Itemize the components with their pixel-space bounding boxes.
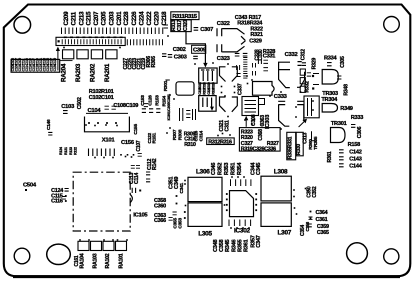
pad bars below C113 [132,188,135,193]
svg-text:RA102: RA102 [105,253,111,268]
wire from R313 box to C309 [186,32,205,63]
svg-text:C323: C323 [217,56,231,62]
svg-text:C337: C337 [238,83,244,95]
svg-text:C215: C215 [86,11,93,26]
arrowhead at relay [244,116,248,120]
svg-text:RA101: RA101 [118,253,124,268]
svg-text:C316: C316 [193,130,199,141]
capacitor C358 pad dot [176,195,178,197]
svg-text:C349: C349 [174,177,180,190]
svg-text:TR303: TR303 [322,91,338,97]
svg-text:C368: C368 [258,129,264,141]
IC306 body [176,82,194,95]
svg-text:R326: R326 [212,87,216,94]
connector CN301 outline [199,68,217,83]
svg-text:C130: C130 [53,64,57,72]
svg-text:C322: C322 [207,87,211,94]
svg-text:R361: R361 [327,151,333,162]
svg-text:C116: C116 [51,198,63,204]
transistor Q301 body [222,29,245,41]
connector CN301 top dashes [201,69,214,71]
connector pin bars continuation [127,39,162,45]
component box R313 C317 C320 [171,20,191,32]
capacitor C113 symbol [146,172,150,175]
relay footprint inner bars [245,101,257,113]
svg-text:C303: C303 [174,55,188,61]
pad dot b [312,87,314,89]
arrowhead to connector pin 1 [56,47,60,51]
svg-text:R124: R124 [59,147,63,155]
mounting hole bottom-left small [14,248,30,264]
capacitor C309 symbol [193,56,198,58]
svg-text:R346: R346 [231,239,237,252]
svg-text:C306: C306 [357,126,363,138]
arrowhead diagonal [302,119,307,123]
capacitor C354 symbol [308,224,312,227]
capacitor C104 symbol b [112,106,116,109]
capacitor C302 symbol [162,54,166,57]
svg-text:C156: C156 [121,140,135,146]
svg-text:C353: C353 [178,218,184,229]
svg-text:C114: C114 [134,173,140,184]
IC304 body [304,96,319,118]
svg-text:R142: R142 [152,158,158,170]
node line under C104 [86,112,128,114]
svg-text:C347: C347 [256,235,262,248]
svg-text:C108C109: C108C109 [113,103,138,109]
connector CN302 arrow [210,107,214,111]
IC304 inner bars [308,98,312,116]
IC302 body (octagon) [230,191,254,217]
svg-text:L308: L308 [274,168,288,175]
svg-text:C201: C201 [116,11,123,26]
crystal X101 body (bracket) [85,117,130,132]
svg-text:R121: R121 [64,147,68,155]
resistor group box R311 R315 [171,12,199,20]
svg-text:C314: C314 [199,130,205,141]
transistor TR304 body [322,104,337,113]
svg-text:IC105: IC105 [133,212,148,218]
component box R330 C313 [296,132,303,156]
svg-text:RA103: RA103 [93,253,99,268]
transistor Q302 body [222,41,245,52]
capacitor C363 symbol [173,212,177,215]
svg-text:C144: C144 [349,164,363,170]
pad dot near L305 a [184,211,186,213]
capacitor symbol right of C328 a [263,60,268,63]
transistor Q306 body [232,97,238,112]
svg-text:L305: L305 [198,230,212,237]
capacitor C107 symbol [138,153,142,156]
capacitor pad ticks row (C209-C218) [62,28,163,35]
bracket near R333 [312,131,318,141]
mounting hole bottom-left oval [47,244,71,264]
svg-text:R153: R153 [155,95,161,106]
svg-text:L307: L307 [278,230,292,237]
svg-text:C155: C155 [133,124,139,135]
capacitor symbol above C113 [131,165,135,168]
resistor R334 symbol [327,63,332,66]
svg-text:C224: C224 [138,11,145,26]
svg-text:C102C101: C102C101 [89,95,114,101]
pin labels between connectors row 2 [198,87,216,94]
svg-text:R351: R351 [231,163,237,176]
svg-text:R335R331: R335R331 [288,136,294,159]
svg-text:C220: C220 [154,11,161,26]
resistor array RA201 body [106,50,117,59]
relay footprint step [259,99,265,105]
svg-text:R305: R305 [151,56,157,68]
mounting hole top-right [384,17,400,33]
capacitor C364 symbol dots [310,211,312,213]
pad bars left of C333 b [253,71,256,76]
svg-text:R312R316: R312R316 [208,139,232,145]
leader line from label block to connector [57,50,59,71]
svg-text:C364: C364 [316,210,328,216]
capacitor C116 symbol dot [65,200,67,202]
resistor array RA202 body [91,50,102,59]
svg-text:C228: C228 [123,11,130,26]
svg-text:C331: C331 [263,54,276,60]
capacitor C306 symbol [351,125,355,128]
capacitor C361 symbol [309,217,313,219]
arrowhead into connector CN301 [203,63,207,68]
connector X201 pin 1 dot [58,40,60,42]
capacitor symbols left of IC105 [62,197,66,200]
assorted pad dots [63,35,314,241]
svg-text:RA203: RA203 [75,63,82,82]
svg-text:C213: C213 [78,11,85,26]
svg-text:C315: C315 [198,87,202,94]
capacitor C504 dot [25,189,27,191]
transistor TR301 body [331,128,346,143]
connector label block row 1 (C105-C129) [11,58,57,66]
svg-text:C332: C332 [285,52,298,58]
svg-text:C305: C305 [340,56,346,68]
transistor Q305 body [220,97,226,112]
svg-text:R122: R122 [74,147,78,155]
transistor Q308 body [297,62,305,88]
svg-text:C153: C153 [140,95,146,106]
pad ticks above IC105 [89,149,115,157]
pin labels between connectors row 1 [198,82,216,89]
svg-text:C203: C203 [108,11,115,26]
svg-text:TR305: TR305 [313,136,319,150]
svg-text:C309: C309 [193,48,207,54]
capacitor C303 symbol [168,55,172,58]
mounting hole bottom-right small [384,249,399,264]
svg-text:C209: C209 [63,11,70,26]
svg-text:C346: C346 [211,163,217,176]
capacitor C142 symbol [339,150,344,153]
transistor Q307 body [279,62,290,87]
svg-text:R348: R348 [344,84,350,96]
label block top leader [60,60,73,62]
svg-text:C143: C143 [349,157,362,163]
transistor TR303 body [322,70,338,85]
svg-text:R352: R352 [218,163,224,176]
capacitor symbol x237 [236,74,240,77]
board bottom edge (thick) [13,275,400,278]
svg-text:R354: R354 [237,162,243,176]
capacitor C324 symbol [243,53,248,56]
svg-text:C107: C107 [136,140,142,151]
transistor Q301 pins [217,28,222,36]
pad bars pair x237 [237,65,240,70]
capacitor C143 symbol [339,157,344,160]
svg-text:C361: C361 [316,217,328,223]
svg-text:RA201: RA201 [104,63,111,82]
resistor R301 tick [165,79,169,81]
svg-text:C307: C307 [200,27,213,33]
svg-text:C504: C504 [23,182,37,188]
svg-text:C320: C320 [183,20,189,31]
svg-text:RA202: RA202 [90,63,97,82]
capacitor symbol right of C328 b [263,68,268,71]
svg-text:R333: R333 [351,115,364,121]
capacitor C323 symbol [235,53,240,56]
resistor array RA103 body [91,241,102,250]
transistor Q310 body [297,101,304,121]
connector X201 pin bars [62,39,121,44]
crystal X302 bars [180,108,196,121]
svg-text:C222: C222 [146,11,153,26]
component box R335 R331 [287,132,296,160]
svg-text:C365: C365 [317,230,329,236]
svg-text:C329: C329 [249,39,262,45]
capacitor symbol right of Q308 [307,73,311,76]
svg-text:R361: R361 [244,239,250,252]
svg-text:R349: R349 [340,106,353,112]
pad dot below C114 [139,190,141,192]
IC302 bottom pads [229,220,251,227]
capacitor C307 symbol [194,28,199,31]
svg-text:R310: R310 [184,142,196,148]
svg-text:C366: C366 [154,218,166,224]
pad squares column (R325) [300,69,305,92]
svg-text:R319C326C336: R319C326C336 [241,146,276,152]
connector X201 top slots [64,36,123,38]
transistor Q304 body [232,67,238,82]
IC302 side pads [226,193,257,211]
svg-text:C205: C205 [101,11,108,26]
resistor array RA203 body [77,50,88,59]
pad bars left of C333 a [253,63,256,68]
svg-text:C313: C313 [303,132,309,143]
capacitor C144 symbol [339,164,344,167]
svg-text:C345: C345 [256,163,262,176]
inductor L307 body [261,203,291,227]
transistor Q309 body [278,101,289,126]
capacitor C312 symbol [302,63,306,66]
capacitor C115 symbol dot [65,195,67,197]
svg-text:C333: C333 [274,94,288,100]
resistor array RA101 body [116,241,127,250]
capacitor C108 symbol [144,104,148,107]
transistor Q302 pins [217,44,222,52]
component box R323/R320/C327/R319 [239,128,280,152]
svg-text:C352: C352 [312,186,318,197]
svg-text:C348: C348 [213,239,219,252]
capacitor C103 symbol [63,111,68,114]
svg-text:R334: R334 [324,55,338,61]
svg-text:C126: C126 [147,95,153,106]
mounting hole top-left [14,17,31,34]
arrow from R323 box to relay [245,120,247,127]
capacitor symbol dashes right of tick row [164,25,169,28]
svg-text:RA104: RA104 [79,253,85,268]
resistor box R312 R316 [207,138,235,145]
svg-text:C226: C226 [131,11,138,26]
svg-text:C103: C103 [61,104,75,110]
inductor L305 body [188,203,222,227]
svg-text:C302: C302 [173,47,186,53]
IC C333 body [253,82,275,96]
inductor L306 body [188,177,222,201]
capacitor symbol above C114 [136,165,140,168]
capacitor C126 symbol [149,109,153,113]
pad dot near L305 b [184,217,186,219]
mounting hole bottom-right large [347,243,368,264]
svg-text:C359: C359 [317,224,329,230]
capacitor symbols column above C333 [243,58,247,79]
svg-text:R318: R318 [237,21,250,27]
capacitor C146 symbol [48,132,52,135]
resistor R153 symbol [156,109,160,113]
svg-text:TR304: TR304 [321,97,338,103]
svg-text:C358: C358 [219,239,225,252]
pad bars below C328 [258,60,261,65]
connector X201 outline [56,37,125,45]
svg-text:C322: C322 [217,21,230,27]
capacitor C153 symbol [142,109,146,113]
svg-text:C360: C360 [154,204,166,210]
svg-text:R345: R345 [225,239,231,252]
svg-text:R329: R329 [311,58,317,70]
crystal X302 dashes [186,111,190,118]
svg-text:C142: C142 [349,150,362,156]
svg-text:R158: R158 [348,142,361,148]
capacitor C309 box [192,45,206,53]
resistor array RA204 body [63,50,74,59]
capacitor C366 symbol [169,217,173,220]
svg-text:R353: R353 [224,163,230,176]
svg-text:RA204: RA204 [61,63,68,82]
svg-text:C502: C502 [77,97,83,109]
svg-text:X101: X101 [102,138,116,144]
svg-text:R321: R321 [250,32,263,38]
IC105 body (dashed outline) [73,172,130,231]
IC302 top pads [231,179,251,186]
capacitor C104 symbol a [105,106,109,109]
capacitor C114 symbol [146,179,150,182]
svg-text:TR301: TR301 [331,121,347,127]
svg-text:R308: R308 [178,129,184,140]
svg-text:R301: R301 [163,80,169,91]
capacitor C360 pad dot [176,203,178,205]
svg-text:IC301C305C381: IC301C305C381 [166,93,171,120]
tiny labels R124-R122 [59,147,77,155]
svg-text:C211: C211 [71,11,78,25]
svg-text:R317: R317 [203,87,207,94]
svg-text:C207: C207 [93,11,100,26]
relay footprint body [242,97,259,116]
transistor TR303 pins [313,74,319,85]
pad dot a [312,75,314,77]
resistor array RA104 body [78,241,89,250]
svg-text:R355: R355 [237,239,243,252]
transistor Q303 body [220,67,226,82]
svg-text:C312: C312 [301,49,307,60]
svg-text:R307: R307 [172,129,178,140]
connector label block outline [11,59,60,72]
svg-text:L306: L306 [196,169,210,176]
svg-text:R151: R151 [152,132,158,143]
connector CN302 pin bars [203,98,212,108]
connector CN302 outline [199,96,216,112]
svg-text:C311: C311 [225,120,231,131]
capacitor C305 symbol [337,76,341,79]
svg-text:R123: R123 [69,147,73,155]
inductor L308 body [261,176,291,201]
svg-text:C218: C218 [161,11,168,26]
capacitor C124 symbol [65,189,69,192]
svg-text:R330: R330 [296,144,302,155]
connector CN301 pin bars [203,71,212,81]
crystal X101 pad dots [88,122,117,124]
IC105 notch [130,195,132,203]
connector label block row 2 (C106-C130) [11,64,57,72]
wire diagonal to TR301 [299,120,306,127]
resistor array RA102 body [103,241,114,250]
svg-text:C146: C146 [46,119,52,130]
